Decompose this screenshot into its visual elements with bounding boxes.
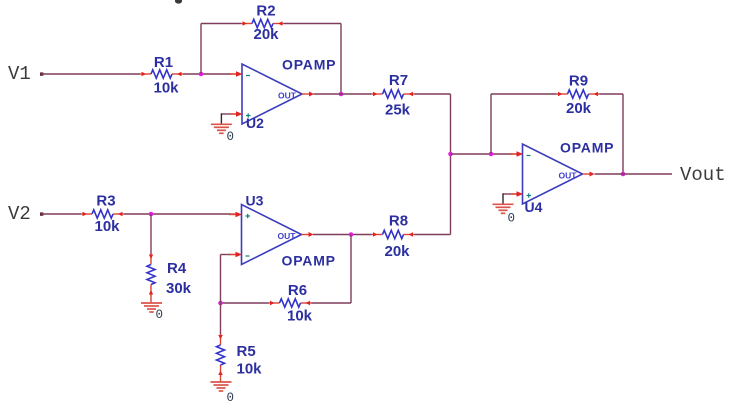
wire node C up [220, 255, 222, 304]
svg-text:V2: V2 [8, 203, 31, 225]
resistor R4 30k [147, 254, 192, 298]
wire node B down to R4 [150, 214, 152, 254]
junction node C [218, 301, 223, 306]
svg-text:20k: 20k [384, 243, 410, 260]
wire central node to U4 minus [451, 153, 512, 155]
wire V1 to R1 [42, 73, 141, 75]
wire node C down to R5 [220, 303, 222, 335]
svg-text:OPAMP: OPAMP [282, 253, 336, 269]
port label Vout [680, 164, 726, 186]
junction node A [199, 72, 204, 77]
svg-text:R9: R9 [569, 73, 588, 90]
resistor R6 10k [269, 282, 313, 325]
svg-text:OUT: OUT [278, 90, 297, 100]
svg-text:U4: U4 [525, 199, 543, 215]
junction node B [149, 212, 154, 217]
svg-text:10k: 10k [94, 218, 120, 235]
wire R3 to U3 plus input [124, 213, 231, 215]
wire R1 to U2 inverting input [183, 73, 231, 75]
svg-text:R5: R5 [237, 343, 256, 360]
svg-text:U2: U2 [246, 115, 264, 131]
svg-text:30k: 30k [166, 280, 192, 297]
ground 0 [493, 204, 516, 225]
svg-text:0: 0 [227, 391, 235, 405]
wire end marker [40, 72, 43, 75]
op-amp U4 [510, 140, 614, 216]
svg-text:Vout: Vout [680, 164, 726, 186]
op-amp U3 [229, 193, 336, 269]
svg-text:OUT: OUT [559, 170, 578, 180]
svg-text:R3: R3 [96, 193, 115, 210]
wire U2 output to R7 [314, 93, 372, 95]
wire R5 to ground [220, 376, 222, 382]
wire ground to U4 plus [503, 193, 517, 204]
resistor R9 20k [557, 73, 600, 118]
svg-text:R4: R4 [167, 260, 187, 277]
svg-text:20k: 20k [566, 100, 592, 117]
port label V2 [8, 203, 31, 225]
resistor R1 10k [140, 54, 183, 97]
wire R4 to ground [150, 295, 152, 303]
ground 0 [211, 382, 235, 405]
wire R2 to right corner [284, 23, 341, 25]
svg-text:V1: V1 [8, 63, 31, 85]
svg-text:OPAMP: OPAMP [560, 140, 614, 156]
resistor R2 20k [241, 3, 284, 43]
svg-text:20k: 20k [253, 26, 279, 43]
svg-text:10k: 10k [237, 361, 263, 378]
junction U4 output node [621, 172, 626, 177]
svg-text:R6: R6 [288, 282, 307, 299]
ground 0 [141, 303, 163, 322]
svg-text:R7: R7 [389, 72, 408, 89]
wire to R2 [201, 23, 241, 25]
resistor R7 25k [372, 72, 415, 119]
wire to R6 [312, 302, 352, 304]
junction R9 tap [489, 152, 494, 157]
wire R8 to central corner [415, 234, 451, 236]
svg-text:0: 0 [156, 308, 164, 322]
wire R9 tap up [490, 94, 492, 154]
svg-text:OPAMP: OPAMP [282, 57, 336, 73]
svg-text:U3: U3 [246, 193, 264, 209]
wire R7 to corner [415, 93, 451, 95]
svg-text:0: 0 [227, 130, 235, 144]
wire V2 to R3 [42, 213, 82, 215]
resistor R8 20k [372, 213, 415, 261]
wire up to R9 [491, 93, 557, 95]
svg-text:0: 0 [508, 212, 516, 226]
pin wire U3 plus [229, 213, 236, 215]
wire ground to U2 plus [221, 113, 236, 124]
junction U2 output node [339, 92, 344, 97]
wire end marker V2 [40, 212, 43, 215]
pin wire U2 minus [230, 73, 237, 75]
svg-text:10k: 10k [287, 308, 313, 325]
wire R9 to right corner [600, 93, 624, 95]
svg-text:R8: R8 [389, 213, 408, 230]
wire U3 output to R8 [313, 234, 372, 236]
svg-text:R2: R2 [256, 3, 275, 20]
pin wire U4 minus [510, 153, 517, 155]
svg-text:R1: R1 [154, 54, 173, 71]
op-amp U2 [230, 57, 337, 132]
wire central vertical [450, 94, 452, 235]
wire R6 to node C [221, 302, 269, 304]
resistor R5 10k [217, 334, 263, 378]
junction central node [448, 152, 453, 157]
svg-text:10k: 10k [153, 80, 179, 97]
wire to U3 minus input [221, 254, 236, 256]
junction U3 output node [349, 232, 354, 237]
stray glyph fragment [175, 0, 182, 4]
port label V1 [8, 63, 31, 85]
resistor R3 10k [81, 193, 124, 236]
wire down to output [622, 94, 624, 174]
wire U3 feedback down [350, 235, 352, 304]
wire U4 output to Vout [595, 173, 673, 175]
wire down to U2 output node [340, 24, 342, 95]
svg-text:25k: 25k [385, 102, 411, 119]
wire node A up [200, 24, 202, 75]
svg-text:OUT: OUT [278, 231, 297, 241]
ground 0 [211, 124, 234, 144]
